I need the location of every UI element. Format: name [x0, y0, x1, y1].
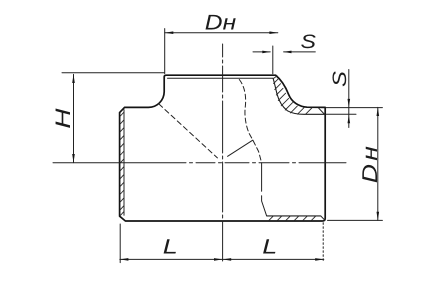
dimension Dn right line	[377, 107, 379, 220]
dimension S right extension lower	[326, 113, 356, 115]
svg-text:L: L	[163, 236, 178, 259]
dimension L arrow mid right	[223, 258, 232, 261]
dimension L arrow far right	[315, 258, 324, 261]
svg-text:H: H	[52, 108, 75, 129]
dimension S right arrow down	[348, 99, 351, 107]
weld seam thin line to center	[228, 140, 253, 156]
dimension S top line	[253, 51, 315, 53]
horizontal centerline	[53, 162, 346, 164]
dimension Dn top arrow right	[269, 31, 277, 34]
svg-text:Dн: Dн	[358, 143, 382, 183]
dimension L arrow mid left	[214, 258, 223, 261]
svg-text:Dн: Dн	[205, 11, 236, 35]
dimension Dn right arrow bottom	[377, 212, 380, 221]
bottom wall hatching	[269, 216, 316, 220]
dimension H arrow up	[72, 74, 75, 83]
dimension L extension left	[119, 224, 121, 263]
dimension H line	[73, 74, 75, 162]
weld seam dashed curve right upper	[239, 80, 261, 163]
branch top inner bevel line	[168, 77, 274, 79]
dimension H extension line top	[62, 72, 164, 74]
dimension S top extension	[272, 46, 274, 74]
dimension Dn top line	[165, 32, 278, 34]
dimension Dn top extension left	[164, 29, 166, 74]
dimension H arrow down	[72, 154, 75, 163]
dimension S right line upper	[348, 70, 350, 128]
svg-text:S: S	[301, 32, 317, 53]
dimension Dn top arrow left	[165, 31, 174, 34]
bottom wall inner line	[267, 215, 321, 217]
svg-text:L: L	[262, 236, 277, 259]
dimension S right extension upper	[326, 107, 382, 109]
weld seam line right lower	[262, 163, 267, 216]
dimension Dn right extension bottom	[328, 219, 383, 221]
dimension L extension right dotted	[322, 223, 324, 263]
dimension L arrow far left	[120, 258, 129, 261]
weld seam dashed diagonal left	[159, 104, 218, 158]
dimension Dn right arrow top	[377, 107, 380, 116]
dimension S right arrow up	[348, 115, 351, 123]
pipe tee outer outline	[120, 75, 326, 221]
right end bottom bevel diagonal	[321, 216, 325, 220]
right end top bevel diagonal	[319, 108, 325, 114]
dimension S top arrow left	[262, 51, 270, 54]
dimension L line	[120, 258, 324, 260]
branch right wall inner curve	[273, 78, 325, 114]
dimension S top arrow right	[284, 51, 292, 54]
left end bevel hatching	[120, 112, 124, 215]
svg-text:S: S	[330, 71, 351, 87]
branch right wall hatching	[273, 76, 312, 115]
left end weld bevel line	[123, 110, 125, 216]
vertical centerline	[222, 44, 224, 262]
